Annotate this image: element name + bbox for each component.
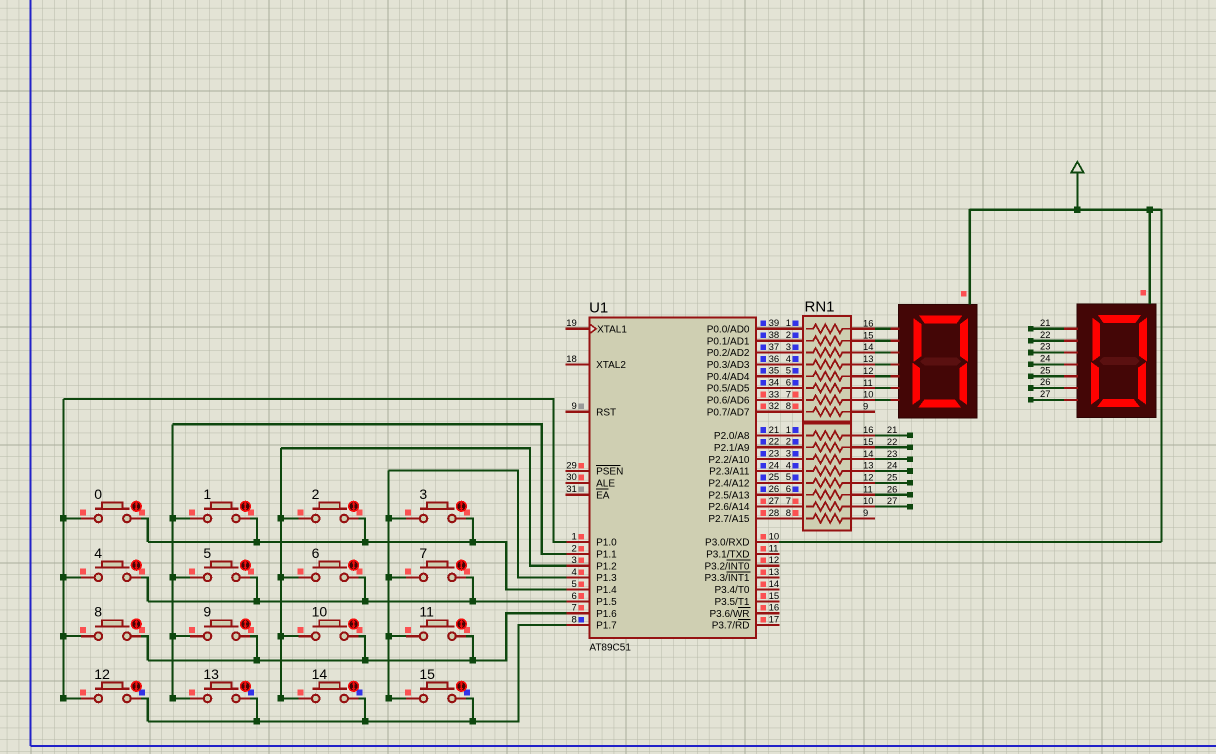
svg-text:4: 4	[94, 545, 102, 561]
svg-text:27: 27	[769, 496, 780, 507]
push button 3	[385, 486, 473, 542]
svg-text:P3.7/RD: P3.7/RD	[712, 621, 750, 632]
resistor RN1 element 5 (lower pack)	[806, 479, 851, 488]
wire rail right vertical	[1160, 209, 1162, 542]
svg-text:6: 6	[786, 377, 791, 388]
junction row bus / button drop	[470, 598, 477, 605]
push button 14	[278, 666, 366, 722]
resistor RN1 element 1 (upper pack)	[806, 324, 851, 333]
wire column D to U1 P1.3	[389, 471, 567, 578]
junction row bus / button drop	[470, 657, 477, 664]
wire RN1 to DS1 segment	[875, 340, 891, 342]
wire RN1 to DS1 segment	[875, 399, 891, 401]
push button 15	[385, 666, 473, 722]
svg-text:4: 4	[786, 460, 791, 471]
push button 0	[60, 486, 148, 542]
svg-text:38: 38	[769, 330, 780, 341]
svg-text:15: 15	[419, 666, 435, 682]
svg-text:11: 11	[769, 543, 779, 554]
U1 pin 10 P3.0/RXD	[705, 532, 780, 549]
svg-text:3: 3	[572, 555, 577, 566]
U1 pin 19 XTAL1	[565, 318, 627, 335]
U1 pin 7 P1.6	[565, 603, 617, 620]
U1 pin 1 P1.0	[565, 532, 617, 549]
resistor RN1 element 8 (lower pack)	[806, 514, 851, 523]
DS1 segment pin stub	[890, 340, 899, 342]
wire keypad column bus A	[63, 399, 65, 698]
U1 pin 29 PSEN	[565, 460, 623, 477]
svg-text:12: 12	[863, 472, 873, 483]
U1 pin 32 P0.7/AD7 to RN1 pin 8	[707, 401, 805, 418]
push button 10	[278, 604, 366, 661]
U1 pin 6 P1.5	[565, 591, 617, 608]
junction row bus / button drop	[362, 718, 369, 725]
wire rail to DS2 anode	[1149, 210, 1151, 304]
RN1 lower output pin 13	[851, 460, 897, 471]
svg-text:12: 12	[863, 365, 873, 376]
DS1 segment pin stub	[890, 363, 899, 365]
svg-text:21: 21	[769, 425, 780, 436]
push button 6	[278, 545, 366, 602]
svg-text:P0.1/AD1: P0.1/AD1	[707, 336, 750, 347]
svg-text:5: 5	[203, 545, 211, 561]
wire keypad column bus C	[280, 448, 282, 698]
svg-text:P3.5/T1: P3.5/T1	[714, 597, 749, 608]
svg-text:7: 7	[786, 389, 791, 400]
wire rail to DS1 anode	[969, 209, 971, 304]
resistor network RN1 body	[803, 299, 851, 531]
svg-text:7: 7	[572, 603, 577, 614]
push button 9	[169, 604, 257, 661]
wire/terminal net 27 from RN1	[875, 504, 913, 510]
svg-text:P0.4/AD4: P0.4/AD4	[707, 372, 750, 383]
svg-text:1: 1	[786, 425, 791, 436]
svg-text:24: 24	[769, 460, 780, 471]
push button 8	[60, 604, 148, 661]
svg-text:21: 21	[1040, 317, 1050, 328]
IC U1 AT89C51 microcontroller body	[589, 300, 756, 654]
RN1 lower output pin 16	[851, 424, 897, 435]
wire/terminal net 25 from RN1	[875, 480, 913, 486]
svg-text:10: 10	[863, 495, 873, 506]
svg-text:P3.1/TXD: P3.1/TXD	[706, 550, 749, 561]
power symbol (VCC arrow)	[1071, 162, 1083, 210]
resistor RN1 element 1 (lower pack)	[806, 431, 851, 440]
junction at rail/power stem	[1074, 207, 1081, 214]
resistor RN1 element 6 (upper pack)	[806, 384, 851, 393]
push button 7	[385, 545, 473, 602]
U1 pin 28 P2.7/A15 to RN1 pin 8	[708, 508, 805, 525]
svg-text:2: 2	[786, 330, 791, 341]
DS2 segment pin net 26	[1028, 376, 1078, 391]
DS1 segment pin stub	[890, 351, 899, 353]
RN1 upper output pin 13	[851, 353, 875, 364]
svg-text:21: 21	[887, 424, 897, 435]
svg-text:XTAL2: XTAL2	[596, 360, 626, 371]
svg-text:11: 11	[863, 377, 873, 388]
svg-text:5: 5	[786, 366, 791, 377]
RN1 lower output pin 15	[851, 436, 897, 447]
svg-text:1: 1	[203, 486, 211, 502]
svg-text:8: 8	[786, 508, 791, 519]
U1 pin 3 P1.2	[565, 555, 617, 572]
U1 pin 37 P0.2/AD2 to RN1 pin 3	[707, 342, 805, 359]
wire column A to U1 P1.0	[64, 399, 567, 542]
svg-text:14: 14	[863, 341, 873, 352]
svg-text:23: 23	[1040, 341, 1050, 352]
junction at rail/DS2 drop	[1147, 207, 1154, 214]
wire RN1 to DS1 segment	[875, 375, 891, 377]
svg-text:P2.4/A12: P2.4/A12	[708, 479, 750, 490]
svg-text:16: 16	[769, 603, 780, 614]
svg-text:34: 34	[769, 377, 780, 388]
wire right vertical to P3.0	[779, 541, 1162, 543]
svg-text:37: 37	[769, 342, 780, 353]
svg-text:10: 10	[769, 532, 780, 543]
svg-text:23: 23	[887, 448, 897, 459]
U1 pin 31 EA	[565, 484, 609, 501]
svg-text:AT89C51: AT89C51	[589, 643, 631, 654]
svg-text:16: 16	[863, 424, 873, 435]
resistor RN1 element 3 (lower pack)	[806, 455, 851, 464]
svg-text:24: 24	[1040, 353, 1050, 364]
push button 13	[169, 666, 257, 722]
svg-text:P2.3/A11: P2.3/A11	[709, 467, 750, 478]
svg-text:PSEN: PSEN	[596, 467, 623, 478]
svg-text:6: 6	[312, 545, 320, 561]
svg-text:P3.2/INT0: P3.2/INT0	[704, 561, 749, 572]
U1 pin 9 RST	[565, 401, 616, 418]
svg-text:P2.7/A15: P2.7/A15	[708, 514, 750, 525]
svg-text:P2.2/A10: P2.2/A10	[708, 455, 750, 466]
junction row bus / button drop	[254, 657, 261, 664]
svg-text:33: 33	[769, 389, 780, 400]
svg-text:P3.6/WR: P3.6/WR	[709, 609, 749, 620]
svg-text:13: 13	[203, 666, 219, 682]
RN1 upper output pin 16	[851, 318, 875, 329]
U1 pin 34 P0.5/AD5 to RN1 pin 6	[707, 377, 805, 394]
junction row bus / button drop	[254, 718, 261, 725]
svg-text:3: 3	[786, 342, 791, 353]
svg-text:27: 27	[887, 495, 897, 506]
U1 pin 25 P2.4/A12 to RN1 pin 5	[708, 472, 805, 489]
junction row bus / button drop	[254, 598, 261, 605]
svg-text:11: 11	[419, 604, 434, 620]
svg-text:32: 32	[769, 401, 780, 412]
wire RN1 to DS1 segment	[875, 351, 891, 353]
junction row bus / button drop	[470, 539, 477, 546]
resistor RN1 element 6 (lower pack)	[806, 490, 851, 499]
svg-text:P0.3/AD3: P0.3/AD3	[707, 360, 750, 371]
resistor RN1 element 4 (lower pack)	[806, 467, 851, 476]
wire keypad row bus 3 to P1.7	[148, 625, 567, 722]
svg-text:P1.2: P1.2	[596, 561, 617, 572]
U1 pin 24 P2.3/A11 to RN1 pin 4	[709, 460, 805, 477]
svg-text:35: 35	[769, 366, 780, 377]
svg-text:24: 24	[887, 460, 897, 471]
junction row bus / button drop	[470, 718, 477, 725]
U1 pin 33 P0.6/AD6 to RN1 pin 7	[707, 389, 805, 406]
wire/terminal net 26 from RN1	[875, 492, 913, 498]
RN1 upper output pin 10	[851, 389, 875, 400]
svg-text:P2.5/A13: P2.5/A13	[708, 490, 750, 501]
DS2 segment pin net 22	[1028, 329, 1078, 344]
svg-text:P1.3: P1.3	[596, 573, 617, 584]
svg-text:P0.7/AD7: P0.7/AD7	[707, 407, 750, 418]
U1 pin 35 P0.4/AD4 to RN1 pin 5	[707, 366, 805, 383]
svg-text:13: 13	[863, 460, 873, 471]
U1 pin 39 P0.0/AD0 to RN1 pin 1	[707, 318, 805, 335]
push button 11	[385, 604, 473, 661]
svg-text:9: 9	[863, 400, 868, 411]
svg-text:18: 18	[566, 354, 577, 365]
svg-text:26: 26	[769, 484, 780, 495]
RN1 lower output pin 12	[851, 472, 897, 483]
svg-text:RN1: RN1	[805, 299, 835, 316]
svg-text:25: 25	[1040, 364, 1050, 375]
resistor RN1 element 3 (upper pack)	[806, 348, 851, 357]
svg-text:9: 9	[203, 604, 211, 620]
wire RN1 to DS1 segment	[875, 363, 891, 365]
svg-text:P0.6/AD6: P0.6/AD6	[707, 396, 750, 407]
svg-text:P3.3/INT1: P3.3/INT1	[704, 573, 749, 584]
svg-text:11: 11	[863, 483, 873, 494]
svg-text:P1.1: P1.1	[596, 550, 617, 561]
svg-text:10: 10	[312, 604, 328, 620]
RN1 upper output pin 14	[851, 341, 875, 352]
U1 pin 27 P2.6/A14 to RN1 pin 7	[708, 496, 805, 513]
DS2 segment pin net 23	[1028, 341, 1078, 356]
U1 pin 12 P3.2/INT0	[704, 555, 779, 572]
U1 pin 26 P2.5/A13 to RN1 pin 6	[708, 484, 805, 501]
U1 pin 14 P3.4/T0	[714, 579, 779, 596]
wire keypad column bus D	[388, 471, 390, 699]
U1 pin 5 P1.4	[565, 579, 617, 596]
U1 pin 36 P0.3/AD3 to RN1 pin 4	[707, 354, 805, 371]
7-segment display DS2 showing 0	[1077, 304, 1156, 418]
wire keypad row bus 2 to P1.6	[148, 613, 567, 660]
svg-text:P0.0/AD0: P0.0/AD0	[707, 324, 750, 335]
svg-text:27: 27	[1040, 388, 1050, 399]
wire keypad row bus 1 to P1.5	[148, 600, 567, 602]
DS2 segment pin net 24	[1028, 353, 1078, 368]
svg-text:3: 3	[786, 449, 791, 460]
svg-text:15: 15	[863, 329, 873, 340]
U1 pin 13 P3.3/INT1	[704, 567, 779, 584]
svg-text:P2.6/A14: P2.6/A14	[708, 502, 750, 513]
svg-text:14: 14	[769, 579, 780, 590]
junction row bus / button drop	[362, 598, 369, 605]
wire RN1 to DS1 segment	[875, 387, 891, 389]
RN1 lower output pin 9	[851, 507, 875, 518]
svg-text:0: 0	[94, 486, 102, 502]
svg-text:U1: U1	[589, 300, 608, 317]
svg-text:P1.0: P1.0	[596, 538, 617, 549]
U1 pin 11 P3.1/TXD	[706, 543, 780, 560]
svg-text:39: 39	[769, 318, 780, 329]
push button 5	[169, 545, 257, 602]
svg-text:14: 14	[312, 666, 328, 682]
resistor RN1 element 7 (upper pack)	[806, 396, 851, 405]
RN1 upper output pin 9	[851, 400, 875, 411]
svg-text:P2.1/A9: P2.1/A9	[714, 443, 750, 454]
wire/terminal net 24 from RN1	[875, 468, 913, 474]
junction row bus / button drop	[362, 539, 369, 546]
U1 pin 18 XTAL2	[565, 354, 626, 371]
resistor RN1 element 2 (upper pack)	[806, 336, 851, 345]
svg-text:10: 10	[863, 389, 873, 400]
svg-text:EA: EA	[596, 490, 610, 501]
svg-text:14: 14	[863, 448, 873, 459]
svg-text:7: 7	[786, 496, 791, 507]
svg-text:6: 6	[786, 484, 791, 495]
svg-text:9: 9	[863, 507, 868, 518]
resistor RN1 element 7 (lower pack)	[806, 502, 851, 511]
svg-text:16: 16	[863, 318, 873, 329]
svg-text:P1.4: P1.4	[596, 585, 617, 596]
svg-text:6: 6	[572, 591, 577, 602]
svg-text:P1.6: P1.6	[596, 609, 617, 620]
svg-text:P1.7: P1.7	[596, 621, 617, 632]
svg-text:12: 12	[94, 666, 110, 682]
DS1 pin state square	[961, 291, 967, 297]
U1 pin 16 P3.6/WR	[709, 603, 779, 620]
svg-text:22: 22	[769, 437, 780, 448]
svg-text:9: 9	[572, 401, 577, 412]
junction row bus / button drop	[362, 657, 369, 664]
svg-text:ALE: ALE	[596, 479, 615, 490]
svg-text:P3.0/RXD: P3.0/RXD	[705, 538, 749, 549]
U1 pin 23 P2.2/A10 to RN1 pin 3	[708, 449, 805, 466]
svg-text:30: 30	[566, 472, 577, 483]
RN1 upper output pin 11	[851, 377, 875, 388]
svg-text:5: 5	[572, 579, 577, 590]
svg-text:1: 1	[572, 532, 577, 543]
svg-text:25: 25	[769, 472, 780, 483]
svg-text:31: 31	[566, 484, 577, 495]
svg-text:22: 22	[887, 436, 897, 447]
push button 4	[60, 545, 148, 602]
DS2 pin state square	[1141, 290, 1147, 296]
U1 pin 38 P0.1/AD1 to RN1 pin 2	[707, 330, 805, 347]
resistor RN1 element 4 (upper pack)	[806, 360, 851, 369]
U1 pin 15 P3.5/T1	[714, 591, 779, 608]
svg-text:15: 15	[863, 436, 873, 447]
svg-text:P2.0/A8: P2.0/A8	[714, 431, 750, 442]
push button 12	[60, 666, 148, 722]
resistor RN1 element 8 (upper pack)	[806, 407, 851, 416]
RN1 upper output pin 12	[851, 365, 875, 376]
U1 pin 2 P1.1	[565, 543, 617, 560]
U1 pin 22 P2.1/A9 to RN1 pin 2	[714, 437, 805, 454]
wire column B to U1 P1.1	[173, 424, 567, 554]
RN1 upper output pin 15	[851, 329, 875, 340]
junction row bus / button drop	[254, 539, 261, 546]
svg-text:2: 2	[786, 437, 791, 448]
wire column C to U1 P1.2	[281, 448, 567, 566]
svg-text:17: 17	[769, 614, 780, 625]
svg-text:1: 1	[786, 318, 791, 329]
DS1 segment pin stub	[890, 328, 899, 330]
svg-text:2: 2	[312, 486, 320, 502]
DS2 segment pin net 21	[1028, 317, 1078, 332]
push button 1	[169, 486, 257, 542]
svg-text:13: 13	[863, 353, 873, 364]
7-segment display DS1 showing 0	[898, 304, 977, 418]
wire/terminal net 23 from RN1	[875, 456, 913, 462]
svg-text:P0.5/AD5: P0.5/AD5	[707, 384, 750, 395]
DS2 segment pin net 27	[1028, 388, 1078, 403]
svg-text:P1.5: P1.5	[596, 597, 617, 608]
svg-text:36: 36	[769, 354, 780, 365]
svg-text:8: 8	[94, 604, 102, 620]
U1 pin 8 P1.7	[565, 614, 617, 631]
RN1 lower output pin 11	[851, 483, 897, 494]
svg-text:7: 7	[419, 545, 427, 561]
wire keypad column bus B	[172, 424, 174, 698]
U1 pin 4 P1.3	[565, 567, 617, 584]
svg-text:8: 8	[786, 401, 791, 412]
U1 pin 21 P2.0/A8 to RN1 pin 1	[714, 425, 805, 442]
svg-text:23: 23	[769, 449, 780, 460]
svg-text:29: 29	[566, 460, 577, 471]
svg-text:26: 26	[887, 483, 897, 494]
svg-text:4: 4	[786, 354, 791, 365]
svg-text:15: 15	[769, 591, 780, 602]
RN1 lower output pin 10	[851, 495, 897, 506]
svg-text:P3.4/T0: P3.4/T0	[714, 585, 749, 596]
resistor RN1 element 2 (lower pack)	[806, 443, 851, 452]
U1 pin 30 ALE	[565, 472, 615, 489]
svg-text:28: 28	[769, 508, 780, 519]
svg-text:12: 12	[769, 555, 780, 566]
svg-text:22: 22	[1040, 329, 1050, 340]
svg-text:P0.2/AD2: P0.2/AD2	[707, 348, 750, 359]
svg-text:XTAL1: XTAL1	[597, 324, 627, 335]
wire RN1 to DS1 segment	[875, 328, 891, 330]
wire/terminal net 21 from RN1	[875, 433, 913, 439]
DS1 segment pin stub	[890, 387, 899, 389]
svg-text:2: 2	[572, 543, 577, 554]
svg-text:3: 3	[419, 486, 427, 502]
svg-text:4: 4	[572, 567, 577, 578]
svg-text:19: 19	[566, 318, 577, 329]
RN1 lower output pin 14	[851, 448, 897, 459]
svg-text:5: 5	[786, 472, 791, 483]
wire/terminal net 22 from RN1	[875, 445, 913, 451]
svg-text:8: 8	[572, 614, 577, 625]
DS2 segment pin net 25	[1028, 364, 1078, 379]
svg-text:25: 25	[887, 472, 897, 483]
DS1 segment pin stub	[890, 375, 899, 377]
wire keypad row bus 0 to P1.4	[148, 542, 567, 589]
svg-text:13: 13	[769, 567, 780, 578]
resistor RN1 element 5 (upper pack)	[806, 372, 851, 381]
svg-text:26: 26	[1040, 376, 1050, 387]
svg-text:RST: RST	[596, 407, 616, 418]
wire power rail	[970, 209, 1162, 211]
U1 pin 17 P3.7/RD	[712, 614, 780, 631]
DS1 segment pin stub	[890, 399, 899, 401]
push button 2	[278, 486, 366, 542]
